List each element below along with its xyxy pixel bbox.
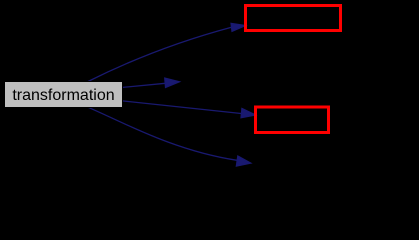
edge: transformation -> top red node bbox=[88, 27, 232, 81]
edge: transformation -> middle hidden node bbox=[123, 83, 166, 87]
node: top red box bbox=[246, 6, 341, 31]
node: transformation (current node, gray) bbox=[5, 82, 123, 108]
node: second red box bbox=[256, 107, 329, 133]
arrowhead: top edge bbox=[231, 23, 246, 31]
edge: transformation -> bottom hidden node bbox=[88, 107, 237, 160]
arrowhead: edge to second red node bbox=[241, 108, 256, 118]
edge: transformation -> second red node bbox=[123, 101, 242, 114]
arrowhead: middle edge bbox=[165, 78, 180, 88]
arrowhead: bottom edge bbox=[236, 156, 251, 166]
svg-text:transformation: transformation bbox=[12, 87, 114, 104]
